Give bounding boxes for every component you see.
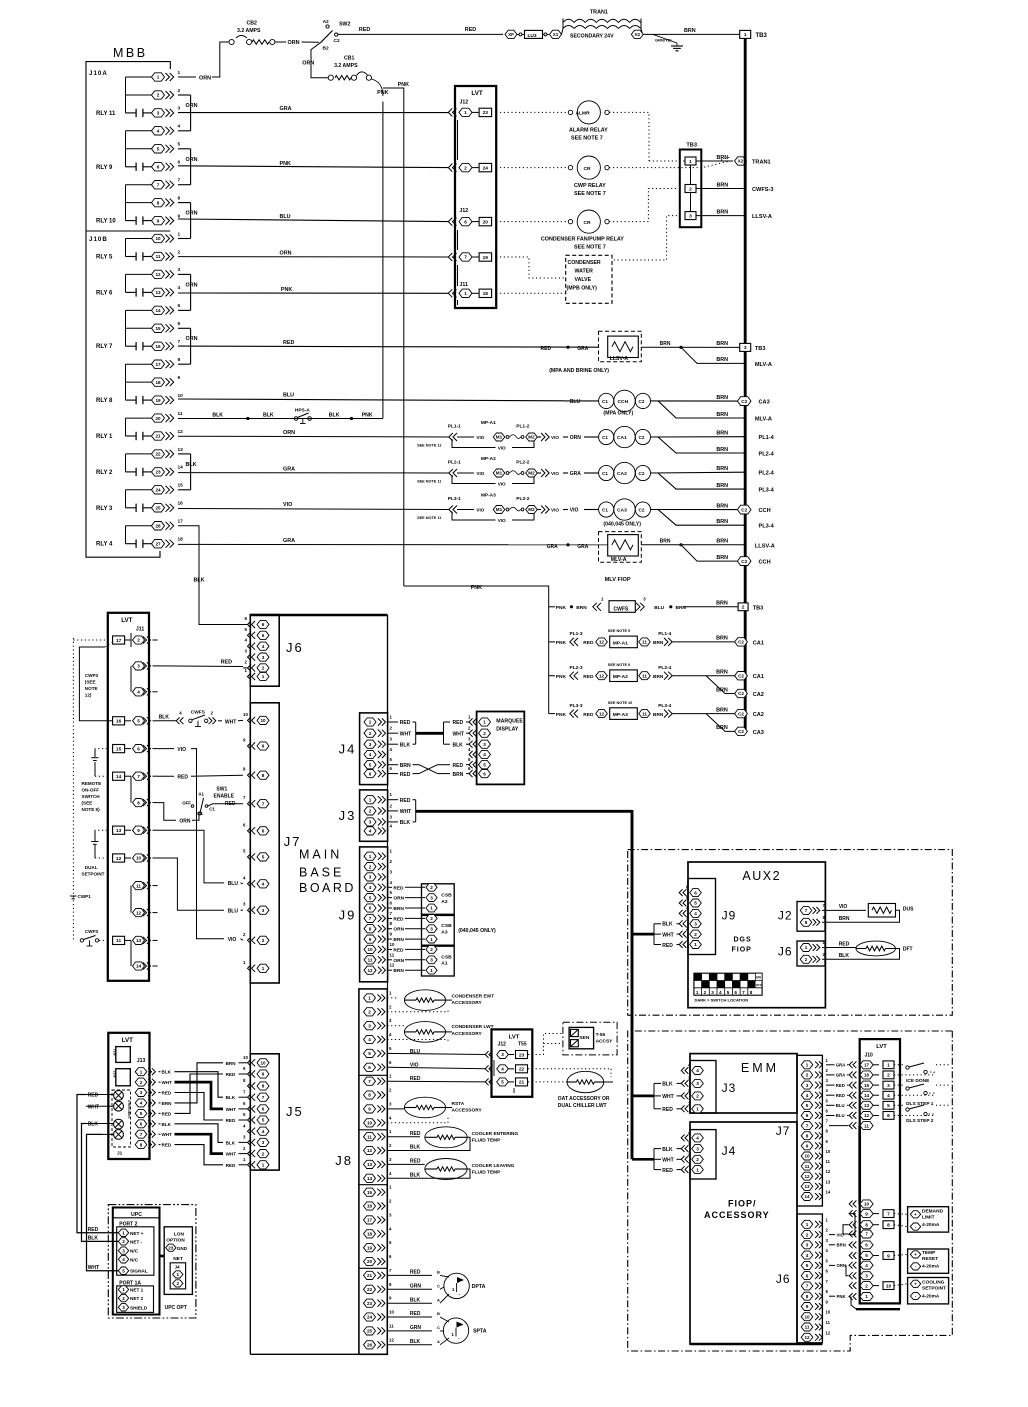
svg-text:13: 13 xyxy=(178,447,184,453)
svg-text:MP-A3: MP-A3 xyxy=(481,492,496,498)
svg-text:4: 4 xyxy=(137,690,140,695)
svg-text:PNK: PNK xyxy=(556,605,567,611)
svg-text:9: 9 xyxy=(178,375,181,381)
svg-text:2: 2 xyxy=(368,1010,371,1015)
strip J7 pin 1 xyxy=(801,1061,813,1069)
wire hex26 to GRA row and BLK down to J6 xyxy=(178,526,243,625)
switch ICE DONE xyxy=(894,1064,905,1066)
svg-text:2: 2 xyxy=(806,1232,809,1237)
svg-text:DFT: DFT xyxy=(903,947,913,953)
svg-text:10: 10 xyxy=(389,1310,394,1315)
svg-text:C2: C2 xyxy=(639,471,645,476)
svg-text:BRN: BRN xyxy=(400,763,411,769)
sensor DFT xyxy=(856,941,896,956)
LVT J11 pin 7 terminal 14 xyxy=(113,772,125,780)
svg-text:5: 5 xyxy=(137,719,140,724)
svg-text:BLK: BLK xyxy=(453,742,464,748)
svg-text:BRN: BRN xyxy=(716,341,728,347)
MBB J10 pin hex 12 xyxy=(152,270,165,278)
svg-text:5: 5 xyxy=(262,855,265,860)
svg-text:NET: NET xyxy=(173,1256,183,1262)
UPC port1A pin 2 NET 2 xyxy=(118,1294,128,1301)
svg-text:1: 1 xyxy=(464,291,467,296)
wire ORN J6-5 to J10-4/3 xyxy=(829,1264,835,1266)
svg-text:GRA: GRA xyxy=(283,538,295,544)
svg-text:RED: RED xyxy=(162,1111,172,1116)
svg-text:HPS-A: HPS-A xyxy=(295,407,310,413)
contactor C1 CA3 C2 xyxy=(599,502,614,517)
svg-text:DUAL CHILLER LWT: DUAL CHILLER LWT xyxy=(558,1103,607,1109)
J8 pin 13 xyxy=(364,1160,376,1168)
svg-text:1: 1 xyxy=(140,1069,143,1074)
EMM J3 pin 4 xyxy=(685,1067,688,1074)
svg-text:+: + xyxy=(914,1282,917,1287)
svg-text:BLU: BLU xyxy=(280,214,291,220)
LVT J11 pin 4 xyxy=(133,688,145,696)
svg-text:4: 4 xyxy=(696,1136,699,1141)
J6 pin 5 xyxy=(252,632,256,639)
dotted wire ALMR to TB3-1 xyxy=(609,112,649,161)
svg-text:4: 4 xyxy=(140,1101,143,1106)
svg-text:11: 11 xyxy=(136,883,141,888)
AUX2 J9 pin 6 xyxy=(683,889,686,896)
MBB J10 pin hex 22 xyxy=(152,450,165,458)
connector N32 xyxy=(116,1069,131,1086)
svg-text:6: 6 xyxy=(806,1113,809,1118)
svg-text:10: 10 xyxy=(260,1061,266,1066)
svg-text:7: 7 xyxy=(369,916,372,921)
J10A/J10B divider xyxy=(86,230,170,232)
thick comm segment to marquee xyxy=(416,732,444,735)
svg-text:5: 5 xyxy=(694,901,697,906)
svg-text:C: C xyxy=(437,1284,440,1289)
svg-text:14: 14 xyxy=(116,774,122,780)
svg-text:23: 23 xyxy=(519,1052,525,1058)
svg-text:WHT: WHT xyxy=(226,1152,237,1157)
wire RED to DFT xyxy=(822,947,856,949)
J9 pin 1 xyxy=(364,852,376,860)
svg-text:T55: T55 xyxy=(518,1042,527,1048)
svg-text:3: 3 xyxy=(887,1083,890,1089)
marquee pin 5 xyxy=(473,761,477,768)
wire CA1 to bus PL1-4 xyxy=(651,436,745,438)
svg-text:CR: CR xyxy=(584,166,592,172)
svg-text:3: 3 xyxy=(430,958,433,963)
lower VIO loop MP-A3 xyxy=(452,512,496,521)
svg-text:FIOP/: FIOP/ xyxy=(728,1199,757,1209)
svg-text:VIO: VIO xyxy=(498,446,506,451)
svg-text:2: 2 xyxy=(157,93,160,98)
LVT J10 pin 4 xyxy=(853,1262,856,1269)
svg-text:BLK: BLK xyxy=(226,1095,236,1100)
svg-text:10: 10 xyxy=(804,1154,810,1159)
svg-text:RLY 1: RLY 1 xyxy=(96,434,113,440)
strip J7 pin 8 xyxy=(801,1132,813,1140)
svg-text:8: 8 xyxy=(887,1223,890,1229)
svg-text:ALARM RELAY: ALARM RELAY xyxy=(569,128,608,134)
svg-text:3: 3 xyxy=(711,990,714,995)
svg-text:ORN: ORN xyxy=(186,336,198,342)
svg-text:VIO: VIO xyxy=(551,435,559,440)
svg-text:PNK: PNK xyxy=(556,640,567,646)
svg-text:DUS: DUS xyxy=(903,907,914,913)
J13 pin 4 xyxy=(135,1099,147,1107)
svg-text:3: 3 xyxy=(122,1248,125,1253)
svg-text:LVT: LVT xyxy=(876,1044,887,1050)
svg-text:8: 8 xyxy=(137,800,140,805)
svg-text:2: 2 xyxy=(122,1296,125,1301)
svg-text:2: 2 xyxy=(464,165,467,170)
wire diag to PL2-4 xyxy=(658,437,744,453)
svg-text:CSB: CSB xyxy=(441,954,452,960)
CSB box xyxy=(422,884,455,976)
svg-text:2: 2 xyxy=(369,864,372,869)
J5 pin 1 xyxy=(252,1161,256,1168)
svg-text:ENABLE: ENABLE xyxy=(214,794,235,800)
svg-text:3: 3 xyxy=(369,820,372,825)
svg-text:14: 14 xyxy=(178,465,184,471)
strip J6 pin 1 xyxy=(801,1220,813,1228)
J2 pin 8 xyxy=(800,918,812,926)
switch DLS STEP 1 xyxy=(894,1084,905,1086)
svg-text:8: 8 xyxy=(865,1222,868,1227)
svg-text:PNK: PNK xyxy=(398,82,409,88)
svg-text:8: 8 xyxy=(368,1093,371,1098)
svg-text:J6: J6 xyxy=(776,1272,791,1286)
connector J3 box xyxy=(360,790,388,841)
strip J6 pin 11 xyxy=(801,1323,813,1331)
strip J6 pin 5 xyxy=(801,1261,813,1269)
J4 pin 6 xyxy=(364,770,376,778)
svg-text:VIO: VIO xyxy=(476,507,484,512)
svg-text:BRN: BRN xyxy=(716,539,728,545)
svg-text:2: 2 xyxy=(704,990,707,995)
svg-text:15: 15 xyxy=(367,1190,373,1195)
svg-text:PNK: PNK xyxy=(281,287,292,293)
svg-text:5: 5 xyxy=(806,1263,809,1268)
svg-text:6: 6 xyxy=(157,164,160,169)
svg-text:10: 10 xyxy=(367,1121,373,1126)
svg-text:GRA: GRA xyxy=(836,1063,846,1068)
svg-text:6: 6 xyxy=(865,1243,868,1248)
svg-text:SPTA: SPTA xyxy=(473,1329,487,1335)
strip J6 pin 12 xyxy=(801,1333,813,1341)
feed bus pins 26-27 xyxy=(125,526,127,544)
svg-text:ORN: ORN xyxy=(570,435,582,441)
svg-text:RLY 7: RLY 7 xyxy=(96,344,113,350)
svg-text:EMM: EMM xyxy=(741,1061,779,1075)
svg-text:ICE DONE: ICE DONE xyxy=(906,1078,930,1084)
wire ORN SW2-B2 down to CB1 xyxy=(311,42,328,77)
svg-text:CA2: CA2 xyxy=(617,471,627,477)
svg-text:13: 13 xyxy=(367,1162,373,1167)
svg-text:DUAL: DUAL xyxy=(85,865,98,870)
wire BLU row RLY10 xyxy=(178,219,449,222)
MBB J10 pin hex 3 xyxy=(152,109,165,117)
svg-text:CA3: CA3 xyxy=(759,400,770,406)
svg-text:LVT: LVT xyxy=(121,617,132,624)
svg-text:M1: M1 xyxy=(496,471,503,476)
svg-text:25: 25 xyxy=(367,1329,373,1334)
svg-text:A: A xyxy=(437,1339,440,1344)
svg-text:PL2-4: PL2-4 xyxy=(759,471,775,477)
LVT J10 pin 17 xyxy=(853,1061,856,1068)
J8 pin 14 xyxy=(364,1174,376,1182)
svg-text:9: 9 xyxy=(369,937,372,942)
svg-text:CWFS: CWFS xyxy=(614,606,629,612)
svg-text:TEMP: TEMP xyxy=(922,1250,936,1256)
plug MP-A2 service row xyxy=(549,675,555,677)
svg-text:RED: RED xyxy=(410,1131,421,1137)
UPC port2 pin box xyxy=(117,1227,154,1275)
svg-text:J4: J4 xyxy=(339,742,357,757)
connector J5 box xyxy=(250,1054,279,1170)
svg-text:BRN: BRN xyxy=(716,466,728,472)
svg-text:N/C: N/C xyxy=(130,1249,139,1254)
svg-text:1: 1 xyxy=(262,1163,265,1168)
svg-text:J10B: J10B xyxy=(89,236,108,243)
svg-text:WHT: WHT xyxy=(226,1107,237,1112)
svg-text:1: 1 xyxy=(368,996,371,1001)
svg-text:+: + xyxy=(914,1252,917,1257)
svg-text:RLY 11: RLY 11 xyxy=(96,111,116,117)
J9 pin 3 xyxy=(364,873,376,881)
jog wire pins 5-7 xyxy=(190,149,192,185)
svg-text:2: 2 xyxy=(178,249,181,255)
svg-text:10: 10 xyxy=(886,1283,892,1289)
svg-text:7: 7 xyxy=(262,801,265,806)
svg-text:BRN: BRN xyxy=(716,687,728,693)
svg-text:(040,045 ONLY): (040,045 ONLY) xyxy=(458,928,496,934)
J5 pin 2 xyxy=(252,1150,256,1157)
svg-text:3: 3 xyxy=(483,742,486,747)
svg-text:SWITCH: SWITCH xyxy=(82,794,101,799)
svg-text:RED: RED xyxy=(400,772,411,778)
LVT J12/J11 pin 7 terminal 19 xyxy=(453,253,457,261)
svg-text:FLUID TEMP: FLUID TEMP xyxy=(472,1138,502,1144)
svg-text:RED: RED xyxy=(226,1163,236,1168)
svg-text:5: 5 xyxy=(369,762,372,767)
svg-text:M2: M2 xyxy=(528,471,535,476)
svg-text:OAT ACCESSORY OR: OAT ACCESSORY OR xyxy=(558,1096,610,1102)
cooling setpoint box xyxy=(908,1278,949,1304)
J5 pin 4 xyxy=(252,1128,256,1135)
J3 pin 3 xyxy=(364,818,376,826)
svg-text:BASE: BASE xyxy=(299,865,344,879)
svg-text:4: 4 xyxy=(262,882,265,887)
svg-text:MP-A1: MP-A1 xyxy=(613,640,628,646)
svg-text:RED: RED xyxy=(226,1118,236,1123)
svg-text:J9: J9 xyxy=(339,908,357,923)
strip J7 pin 3 xyxy=(801,1081,813,1089)
svg-text:1: 1 xyxy=(430,937,433,942)
svg-text:1: 1 xyxy=(887,1063,890,1069)
svg-text:SEE NOTE 11: SEE NOTE 11 xyxy=(417,444,441,448)
J8 pin 24 xyxy=(364,1313,376,1321)
svg-text:22: 22 xyxy=(367,1287,373,1292)
svg-text:11: 11 xyxy=(367,1134,372,1139)
J9 pin 9 xyxy=(364,935,376,943)
svg-text:RED: RED xyxy=(393,947,404,953)
svg-text:C2: C2 xyxy=(741,507,747,512)
svg-text:C1: C1 xyxy=(602,508,608,513)
svg-text:12: 12 xyxy=(116,856,122,862)
svg-text:OFF: OFF xyxy=(756,983,762,987)
MBB J10 pin hex 2 xyxy=(152,91,165,99)
svg-text:COMM SHIELD: COMM SHIELD xyxy=(127,1100,131,1119)
svg-text:5: 5 xyxy=(865,1253,868,1258)
svg-text:18: 18 xyxy=(178,537,184,543)
svg-text:11: 11 xyxy=(642,640,647,645)
svg-text:21: 21 xyxy=(155,434,161,439)
feed bus pins 14-16 xyxy=(125,310,127,346)
LVT J12 pin 3 terminal 23 xyxy=(489,1051,492,1058)
svg-text:BLK: BLK xyxy=(159,715,170,721)
thermistor RSTA xyxy=(387,1108,404,1110)
svg-text:PNK: PNK xyxy=(362,412,373,418)
svg-text:RED: RED xyxy=(410,1311,421,1317)
svg-text:10: 10 xyxy=(243,712,248,717)
UPC port1A pin box xyxy=(117,1286,154,1313)
svg-text:ORN: ORN xyxy=(186,211,198,217)
svg-text:CWP3: CWP3 xyxy=(85,673,99,678)
wire GRA J7-1 xyxy=(826,1064,835,1066)
svg-text:COOLING: COOLING xyxy=(922,1279,945,1285)
dotted field wiring left of LVT J11 xyxy=(72,638,74,940)
svg-text:11: 11 xyxy=(642,673,647,678)
LVT J12/J11 pin 1 terminal 23 xyxy=(453,108,457,116)
FIOP J4 pin 3 xyxy=(685,1145,688,1152)
J9 pin 5 xyxy=(364,894,376,902)
svg-text:WHT: WHT xyxy=(453,731,464,737)
svg-text:(MPB ONLY): (MPB ONLY) xyxy=(567,286,598,292)
svg-text:CSB: CSB xyxy=(441,893,452,899)
svg-text:BRN: BRN xyxy=(653,712,664,718)
svg-text:SEE NOTE 11: SEE NOTE 11 xyxy=(417,480,441,484)
FIOP J4 pin 1 xyxy=(685,1166,688,1173)
svg-text:RED: RED xyxy=(283,340,294,346)
J4 pin 2 xyxy=(364,729,376,737)
J8 pin 5 xyxy=(364,1049,376,1057)
svg-text:PNK: PNK xyxy=(471,585,482,591)
svg-text:N/C: N/C xyxy=(130,1257,139,1262)
svg-text:SETPOINT: SETPOINT xyxy=(922,1285,946,1291)
svg-text:M2: M2 xyxy=(528,507,535,512)
svg-text:22: 22 xyxy=(155,452,161,457)
svg-text:(SEE: (SEE xyxy=(82,801,93,806)
svg-text:2: 2 xyxy=(696,1094,699,1099)
svg-text:2: 2 xyxy=(430,916,433,921)
svg-text:CA2: CA2 xyxy=(753,692,764,698)
svg-text:17: 17 xyxy=(116,638,122,644)
svg-text:6: 6 xyxy=(806,1273,809,1278)
svg-text:BRN: BRN xyxy=(716,707,728,713)
svg-text:WHT: WHT xyxy=(400,731,411,737)
MBB J10 pin hex 25 xyxy=(152,504,165,512)
wire J9-11 ORN to CSB 3 xyxy=(388,959,393,961)
svg-text:C2: C2 xyxy=(639,399,645,404)
svg-text:WHT: WHT xyxy=(400,809,411,815)
svg-text:2: 2 xyxy=(805,957,808,962)
wire RED from SW2 to transformer xyxy=(338,33,503,35)
svg-text:7: 7 xyxy=(805,908,808,913)
svg-text:BRN: BRN xyxy=(717,182,729,188)
svg-text:CCH: CCH xyxy=(759,560,771,566)
svg-text:J6: J6 xyxy=(286,640,304,655)
svg-text:UPC: UPC xyxy=(131,1212,142,1218)
dotted wire LVT-19 to CWV xyxy=(496,257,565,278)
svg-text:GRA: GRA xyxy=(570,471,582,477)
svg-text:12: 12 xyxy=(136,910,142,915)
svg-text:6: 6 xyxy=(262,829,265,834)
svg-text:5: 5 xyxy=(501,1080,504,1085)
svg-text:4: 4 xyxy=(122,1257,125,1262)
svg-text:11: 11 xyxy=(156,254,161,259)
svg-text:ALMR: ALMR xyxy=(576,111,591,117)
svg-text:BRN: BRN xyxy=(716,555,728,561)
UPC port2 pin 2 NET - xyxy=(118,1238,128,1245)
svg-text:ON-OFF: ON-OFF xyxy=(82,788,100,793)
svg-text:3: 3 xyxy=(140,1090,143,1095)
svg-text:7: 7 xyxy=(262,1095,265,1100)
svg-text:PL3-1: PL3-1 xyxy=(448,496,461,502)
wire BRN to TB3-1 with GRN/YEL ground tap xyxy=(644,33,740,35)
svg-text:SHIELD: SHIELD xyxy=(130,1305,148,1310)
svg-text:2: 2 xyxy=(140,1080,143,1085)
J7 pin 1 xyxy=(252,965,256,972)
svg-text:PNK: PNK xyxy=(556,674,567,680)
svg-text:6: 6 xyxy=(369,906,372,911)
svg-text:BLK: BLK xyxy=(410,1339,421,1345)
svg-text:21: 21 xyxy=(367,1273,373,1278)
svg-text:2: 2 xyxy=(369,731,372,736)
svg-text:J7: J7 xyxy=(776,1124,791,1138)
thermistor OAT accessory xyxy=(528,1068,611,1070)
feed bus pins 12-13 xyxy=(125,274,127,292)
svg-text:RED: RED xyxy=(162,1143,172,1148)
svg-text:CONDENSER LWT: CONDENSER LWT xyxy=(452,1024,494,1030)
EMM connector J3 box xyxy=(690,1061,716,1114)
svg-text:CWFS-3: CWFS-3 xyxy=(752,187,773,193)
LVT J11 pin 10 terminal 12 xyxy=(113,854,125,862)
LVT J12/J11 pin 1 terminal 18 xyxy=(453,289,457,297)
svg-text:3: 3 xyxy=(806,1243,809,1248)
wire PNK row RLY9 xyxy=(178,166,449,168)
strip J7 pin 7 xyxy=(801,1122,813,1130)
svg-text:11: 11 xyxy=(389,1323,394,1328)
svg-text:10: 10 xyxy=(864,1202,870,1207)
MBB J10 pin hex 16 xyxy=(152,342,165,350)
svg-text:BLK: BLK xyxy=(329,412,340,418)
svg-text:5: 5 xyxy=(483,762,486,767)
svg-text:M1: M1 xyxy=(496,507,503,512)
svg-text:RED: RED xyxy=(839,941,850,947)
wire J9-7 RED to CSB 2 xyxy=(388,917,393,919)
svg-text:RLY 3: RLY 3 xyxy=(96,506,113,512)
strip J6 pin 4 xyxy=(801,1251,813,1259)
svg-text:GRA: GRA xyxy=(577,544,589,550)
LVT J10 pin 13 xyxy=(853,1102,856,1109)
wire PNK branch to long feed xyxy=(383,88,404,586)
transducer SPTA xyxy=(387,1316,432,1318)
svg-text:5: 5 xyxy=(122,1268,125,1273)
svg-text:GRA: GRA xyxy=(836,1073,846,1078)
svg-text:1: 1 xyxy=(696,1107,699,1112)
svg-text:BLU: BLU xyxy=(228,909,239,915)
LVT J10 pin 8 xyxy=(853,1221,856,1228)
svg-text:VIO: VIO xyxy=(570,508,579,514)
J8 pin 19 xyxy=(364,1244,376,1252)
